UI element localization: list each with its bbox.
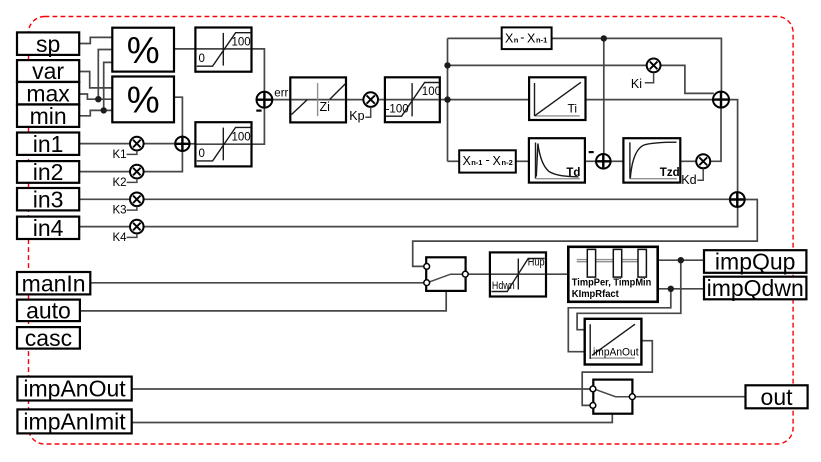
wire L3 to node N1: [440, 99, 448, 101]
wire S2 to limiter L2: [189, 143, 195, 145]
label K2: [113, 177, 137, 189]
minus sign at summer S4: [589, 151, 594, 153]
wire SW2 to out: [635, 396, 746, 398]
wire sp to percent block P1: [79, 37, 112, 43]
junction dot max wire: [95, 96, 101, 102]
summer S4: [596, 154, 611, 169]
wire in4 to multiplier K4: [79, 226, 130, 228]
limiter block L2 0..100: [195, 122, 251, 166]
wire L1 to summer S1 top: [252, 49, 265, 92]
wire manIn to switch SW1: [90, 282, 424, 284]
input box auto: [17, 298, 80, 324]
label Kd: [681, 169, 703, 188]
wire D1 branch down to summer S4 top: [603, 38, 605, 153]
switch SW1 port right: [462, 271, 468, 277]
integrator block Ti: [529, 77, 585, 120]
multiplier Kp: [363, 92, 378, 107]
svg-text:X: X: [493, 154, 502, 168]
summer S1 err: [257, 92, 273, 108]
svg-text:auto: auto: [26, 298, 71, 324]
wire auto to switch SW1 control: [80, 291, 446, 311]
svg-text:in1: in1: [33, 131, 64, 157]
multiplier Ki: [647, 59, 661, 73]
svg-text:X: X: [527, 31, 536, 45]
wire Ki to summer S3: [661, 65, 714, 93]
switch SW2 port top-left: [590, 386, 596, 392]
input box impAnImit: [17, 409, 131, 435]
summer S3: [713, 92, 729, 108]
wire node to difference block D1: [448, 37, 502, 39]
wire pulse generator to impQdwn: [658, 288, 704, 290]
svg-text:min: min: [30, 103, 67, 129]
svg-text:err: err: [274, 88, 288, 100]
wire AN1 output to switch SW2: [582, 341, 652, 406]
wire in3 to multiplier K3: [79, 198, 130, 200]
wire D2 to derivative Td: [516, 160, 529, 162]
difference block D2 Xn-1 - Xn-2: [459, 150, 516, 172]
switch SW2 box: [593, 380, 632, 414]
svg-text:casc: casc: [25, 325, 72, 351]
wire impQdwn branch to block AN1: [568, 289, 671, 352]
svg-text:K1: K1: [113, 149, 127, 161]
input box in3: [17, 186, 79, 212]
switch SW1 port bottom-left: [424, 280, 430, 286]
limiter block L3 -100..100: [385, 77, 441, 122]
svg-text:in3: in3: [33, 186, 64, 212]
summer S5: [730, 192, 745, 207]
svg-text:%: %: [127, 30, 160, 71]
svg-text:manIn: manIn: [22, 270, 86, 296]
label K4: [113, 232, 137, 244]
label K3: [113, 205, 137, 217]
input box manIn: [17, 270, 90, 296]
input box var: [17, 58, 79, 84]
wire S3 to summer S5 top: [729, 100, 738, 193]
input box min: [17, 103, 79, 129]
svg-text:X: X: [463, 154, 472, 168]
wire L2 to summer S1 bottom: [252, 108, 265, 145]
input box casc: [17, 325, 80, 351]
label Ki: [631, 73, 654, 92]
svg-text:100: 100: [232, 131, 251, 143]
multiplier K4: [130, 220, 144, 234]
wire Ki branch: [448, 64, 647, 66]
svg-text:-: -: [486, 153, 490, 167]
switch SW1 box: [426, 257, 465, 291]
wire node N1 to integrator Ti: [448, 99, 530, 101]
multiplier K1: [130, 137, 144, 151]
svg-text:n-1: n-1: [536, 35, 547, 44]
wire K2 to summer S2 bottom: [143, 151, 182, 172]
wire K1 to summer S2: [143, 143, 175, 145]
wire node N1 riser: [447, 38, 449, 161]
wire H1 to pulse generator: [546, 273, 568, 275]
svg-text:100: 100: [422, 86, 441, 98]
multiplier Kd: [696, 154, 710, 168]
wire Kp to limiter L3: [378, 99, 385, 101]
wire in2 to multiplier K2: [79, 171, 130, 173]
wire Td to summer S4: [585, 160, 596, 162]
output box impQdwn: [704, 275, 806, 301]
input box max: [17, 80, 79, 106]
svg-text:Ti: Ti: [568, 102, 578, 116]
svg-text:impQup: impQup: [715, 249, 796, 275]
junction dot D1 output: [601, 35, 607, 41]
wire node N1 to difference block D2: [448, 160, 460, 162]
svg-text:TimpPer, TimpMin: TimpPer, TimpMin: [572, 277, 652, 289]
label K1: [113, 149, 137, 161]
summer S2: [175, 137, 189, 151]
svg-text:K4: K4: [113, 232, 128, 244]
svg-text:K2: K2: [113, 177, 127, 189]
input box impAnOut: [17, 376, 131, 402]
input box in1: [17, 131, 79, 157]
svg-text:sp: sp: [36, 31, 60, 57]
svg-text:X: X: [505, 31, 514, 45]
input box in4: [17, 215, 79, 241]
wire S5 output to switch SW1: [413, 200, 758, 267]
svg-text:n-1: n-1: [471, 158, 482, 167]
percent block P1: [112, 28, 174, 72]
wire Kd to summer S3 bottom: [710, 108, 721, 162]
input box in2: [17, 159, 79, 185]
junction dot node N1: [444, 96, 450, 102]
wire P2 to summer S2 top: [174, 97, 182, 136]
wire Ti to summer S3 left: [586, 99, 714, 101]
switch SW2 port bottom-left: [590, 403, 596, 409]
svg-text:Hup: Hup: [528, 256, 545, 268]
wire impAnOut to switch SW2: [132, 388, 591, 390]
analog simulation block AN1 impAnOut: [585, 319, 642, 365]
wire S4 to lag Tzd: [611, 160, 624, 162]
switch SW2 lever: [596, 390, 630, 397]
svg-text:in2: in2: [33, 159, 64, 185]
input box sp: [17, 31, 79, 57]
svg-text:Kp: Kp: [349, 109, 364, 123]
svg-text:Zi: Zi: [320, 100, 330, 114]
svg-text:n-2: n-2: [502, 158, 513, 167]
wire in1 to multiplier K1: [79, 143, 130, 145]
deadband block Zi: [290, 77, 346, 122]
svg-text:in4: in4: [33, 215, 64, 241]
svg-text:n: n: [514, 35, 519, 44]
wire min to percent block P2: [79, 110, 112, 115]
lag block Tzd: [623, 138, 680, 182]
wire Tzd to multiplier Kd: [680, 160, 696, 162]
svg-text:Td: Td: [566, 167, 580, 179]
wire S1 to deadband Zi: [272, 99, 290, 101]
svg-text:%: %: [127, 80, 160, 121]
label Kp: [349, 107, 370, 123]
svg-text:K3: K3: [113, 205, 127, 217]
derivative block Td: [529, 138, 585, 182]
svg-text:out: out: [761, 384, 794, 410]
wire impAnImit to switch SW2 control: [132, 414, 613, 423]
percent block P2: [112, 77, 174, 123]
wire pulse generator to impQup: [658, 259, 704, 261]
switch SW1 port top-left: [424, 264, 430, 270]
svg-text:impQdwn: impQdwn: [707, 275, 804, 301]
wire Zi to multiplier Kp: [346, 99, 363, 101]
wire max to percent block P2: [79, 94, 112, 99]
svg-text:impAnImit: impAnImit: [23, 409, 126, 435]
wire min branch to percent block P1: [104, 62, 113, 110]
wire K3 to summer S5 left: [143, 198, 730, 200]
svg-text:KImpRfact: KImpRfact: [572, 288, 619, 300]
wire P1 to limiter L1: [174, 48, 195, 50]
multiplier K2: [130, 165, 144, 179]
wire max branch to percent block P1: [98, 50, 112, 100]
switch SW1 lever: [429, 274, 462, 282]
svg-text:Kd: Kd: [681, 173, 696, 187]
multiplier K3: [130, 193, 144, 207]
junction dot impQup tap: [678, 257, 684, 263]
junction dot node N1 Ki tap: [444, 62, 450, 68]
svg-text:-: -: [520, 31, 524, 45]
wire SW1 to hysteresis block H1: [468, 273, 490, 275]
hysteresis block H1 Hup Hdwn: [490, 252, 546, 296]
svg-text:-100: -100: [386, 103, 409, 115]
output box out: [746, 384, 808, 410]
wire impQup branch to block AN1: [577, 260, 681, 330]
junction dot impQdwn tap: [668, 286, 674, 292]
limiter block L1 0..100: [195, 28, 251, 72]
svg-text:impAnOut: impAnOut: [23, 376, 126, 402]
junction dot min wire: [101, 107, 107, 113]
svg-text:Hdwn: Hdwn: [492, 280, 515, 292]
output box impQup: [704, 249, 806, 275]
switch SW2 port right: [629, 394, 635, 400]
pulse generator block TimpPer TimpMin KImpRfact: [568, 247, 657, 302]
svg-text:Ki: Ki: [631, 77, 642, 91]
svg-text:impAnOut: impAnOut: [593, 347, 639, 359]
wire var to percent block P2: [79, 72, 112, 88]
svg-text:0: 0: [199, 148, 205, 160]
wire D1 output to summer S3 top: [552, 38, 722, 91]
svg-text:0: 0: [199, 53, 205, 65]
difference block D1 Xn - Xn-1: [502, 27, 552, 49]
wire K4 to summer S5 bottom: [143, 207, 737, 227]
svg-text:100: 100: [232, 37, 251, 49]
minus sign at summer S1: [256, 109, 261, 111]
svg-text:Tzd: Tzd: [660, 167, 680, 179]
